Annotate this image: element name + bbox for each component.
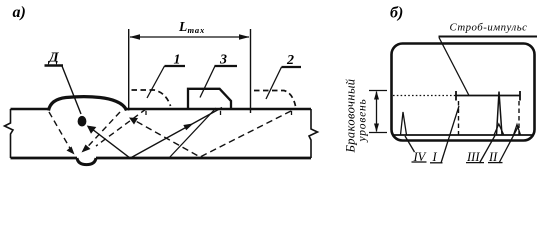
ray from transducer 1 (dashed) bbox=[96, 109, 146, 146]
leader II bbox=[499, 126, 519, 163]
transducer 2 index tick bbox=[291, 111, 293, 115]
leader 1 bbox=[147, 66, 165, 98]
weld bead bbox=[49, 97, 127, 111]
pulse I dashed bbox=[458, 101, 460, 135]
transducer 1 index tick bbox=[145, 111, 147, 115]
vertical text rejection level bbox=[344, 78, 369, 153]
svg-text:Строб-импульс: Строб-импульс bbox=[450, 22, 528, 34]
svg-text:Д: Д bbox=[47, 51, 59, 66]
svg-text:I: I bbox=[432, 150, 438, 164]
weld root bump bbox=[77, 158, 96, 165]
ray from transducer 2 (dashed, reflected) bbox=[133, 111, 291, 157]
plate right edge with break bbox=[309, 109, 318, 158]
ray groove-right dashed arrow bbox=[86, 112, 120, 149]
rejection level dotted line bbox=[393, 95, 456, 97]
transducer 3 index tick bbox=[220, 111, 222, 115]
transducer 3 (solid) bbox=[188, 89, 231, 109]
svg-text:а): а) bbox=[13, 4, 26, 21]
svg-text:III: III bbox=[466, 150, 480, 164]
transducer 1 (dashed) bbox=[132, 90, 171, 106]
label 1 underline bbox=[165, 65, 186, 67]
rejection level bracket top tick bbox=[369, 90, 387, 92]
leader III bbox=[480, 136, 496, 164]
label 3 underline bbox=[215, 65, 238, 67]
ray groove-left dashed arrow bbox=[49, 112, 71, 150]
plate top surface left bbox=[11, 108, 49, 111]
leader IV bbox=[405, 136, 415, 152]
ray to defect (solid, with arrow at dot) bbox=[90, 128, 130, 159]
transducer 2 (dashed) bbox=[254, 91, 296, 107]
svg-text:Браковочный: Браковочный bbox=[344, 78, 358, 153]
svg-text:L: L bbox=[178, 19, 187, 34]
Lmax extension line right bbox=[250, 29, 252, 113]
strobe label underline bbox=[439, 36, 538, 38]
svg-text:б): б) bbox=[390, 5, 403, 22]
strobe end tick bbox=[519, 91, 521, 101]
rejection level bracket bottom tick bbox=[369, 132, 387, 134]
strobe start tick bbox=[455, 91, 457, 101]
arrowhead of transducer 2 ray bbox=[129, 118, 138, 125]
Lmax dimension arrow bbox=[130, 36, 249, 38]
pulse III base skirt bbox=[494, 124, 504, 135]
rejection level vertical arrow bbox=[376, 92, 378, 132]
strobe leader bbox=[439, 38, 469, 96]
Lmax extension line left bbox=[128, 29, 130, 111]
leader D bbox=[62, 66, 81, 114]
label D underline bbox=[45, 64, 64, 66]
plate bottom surface bbox=[11, 157, 312, 160]
strobe gate line bbox=[456, 95, 520, 97]
plate top surface right bbox=[127, 108, 312, 111]
trace baseline bbox=[393, 134, 533, 136]
svg-text:уровень: уровень bbox=[357, 98, 369, 142]
svg-text:2: 2 bbox=[286, 53, 294, 68]
svg-text:II: II bbox=[488, 150, 498, 164]
ray echo up to transducer 3 (solid with mid arrow) bbox=[130, 108, 223, 159]
defect dot bbox=[78, 116, 87, 127]
oscilloscope screen bbox=[392, 44, 535, 141]
plate left edge with break bbox=[5, 109, 14, 158]
pulse II dashed bbox=[518, 101, 520, 135]
ray transducer 3 downward (solid) bbox=[169, 108, 216, 158]
leader 3 bbox=[200, 66, 215, 98]
pulse I edge and leader bbox=[441, 106, 459, 163]
pulse III bbox=[497, 92, 503, 136]
svg-text:max: max bbox=[188, 25, 206, 35]
pulse II spike bbox=[514, 125, 521, 136]
pulse IV bbox=[401, 112, 407, 135]
label 2 underline bbox=[282, 66, 302, 68]
leader 2 bbox=[266, 67, 282, 99]
